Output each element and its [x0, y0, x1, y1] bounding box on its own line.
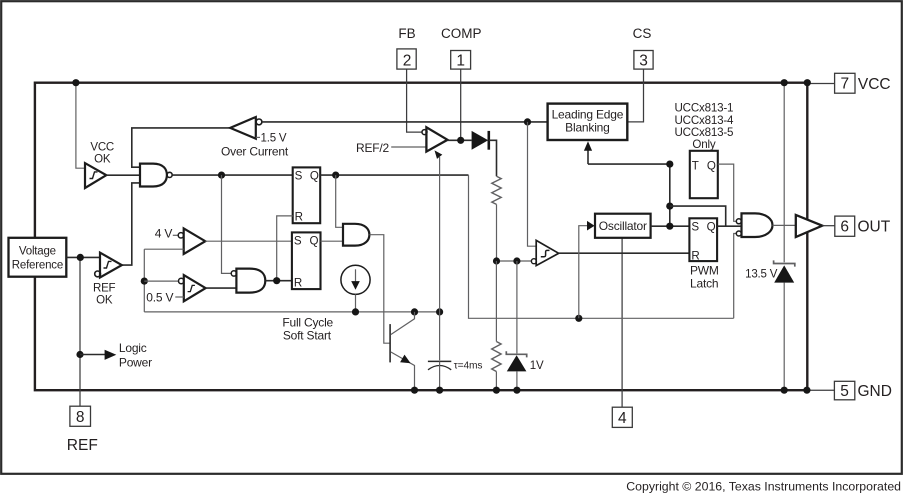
junction sense / 0.5V comparator — [141, 278, 148, 285]
junction fault line to soft-start AND gate branch — [218, 172, 225, 179]
wire over-current inverting input from LEB output — [262, 121, 548, 123]
svg-text:S: S — [295, 170, 303, 183]
buffer VCC OK — [85, 163, 106, 188]
junction VCC rail / VCC OK — [72, 79, 79, 86]
svg-text:T: T — [692, 160, 699, 173]
svg-text:CS: CS — [633, 26, 652, 41]
svg-text:UCCx813-4: UCCx813-4 — [675, 114, 735, 127]
svg-text:8: 8 — [76, 409, 85, 426]
wire sense vertical to soft-start bus — [143, 249, 145, 312]
wire node down through R2 to GND — [495, 261, 497, 342]
wire LEB output down to PWM comparator non-inverting input — [528, 122, 537, 246]
zener diode 1V clamp — [506, 351, 526, 357]
comparator over current (points left) — [230, 117, 256, 139]
wire 0.5V label dash — [175, 296, 184, 298]
svg-text:OUT: OUT — [858, 218, 891, 235]
junction REF node — [77, 254, 84, 261]
wire VCC rail to VCC OK buffer input — [76, 83, 85, 169]
svg-text:6: 6 — [840, 219, 849, 236]
pin 2 box — [397, 49, 416, 69]
sr latch 2 box — [292, 232, 321, 289]
junction U3 output / latch1 R — [273, 277, 280, 284]
pin 5 box — [834, 381, 854, 400]
wire NAND output to SR latch 1 S input (main fault line) — [172, 174, 293, 176]
wire Q line up to output AND bottom inverted input — [734, 234, 737, 319]
junction zener / GND rail — [781, 387, 788, 394]
wire R1 to PWM comparator input node — [496, 204, 498, 261]
svg-text:2: 2 — [403, 52, 412, 69]
svg-text:UCCx813-5: UCCx813-5 — [675, 126, 734, 139]
wire over-current output to NAND top input — [132, 128, 230, 167]
svg-text:Full Cycle: Full Cycle — [282, 315, 333, 329]
svg-text:OK: OK — [94, 154, 111, 166]
junction LEB output / PWM comparator branch — [524, 118, 531, 125]
Q1 collector wire — [391, 312, 415, 335]
op-amp error amplifier — [426, 127, 447, 151]
junction soft-start cap / bus — [436, 308, 443, 315]
wire oscillator down to pin 4 (crosses GND rail) — [621, 238, 623, 407]
comparator 0.5V input bubble — [179, 278, 184, 283]
over current input bubble — [256, 119, 262, 125]
wire GND rail to pin 5 — [807, 389, 834, 391]
svg-text:FB: FB — [398, 26, 415, 41]
svg-text:Latch: Latch — [690, 276, 718, 290]
pin 4 box — [612, 407, 632, 427]
and gate U4 (soft start) — [343, 224, 369, 246]
junction top rail corner to pin 7 — [804, 79, 811, 86]
svg-text:Voltage: Voltage — [19, 246, 56, 258]
wire REF net down to pin 8 (crosses GND rail) — [79, 355, 81, 407]
wire oscillator output to PWM latch S input — [651, 225, 690, 227]
svg-text:Only: Only — [692, 138, 715, 151]
and gate U3 (inverted top input) — [236, 269, 265, 293]
buffer REF OK — [100, 253, 122, 278]
wire soft-start clamp into error amp (arrow up-left) — [439, 157, 441, 360]
wire 1V zener branch — [516, 261, 518, 353]
wire latch1 R input from below — [277, 216, 293, 281]
junction cap / GND — [436, 387, 443, 394]
resistor R1 (upper divider) — [492, 176, 501, 204]
junction current source / bus — [352, 308, 359, 315]
wire branch down to AND U3 inverted input — [222, 175, 231, 273]
U3 top input bubble — [231, 271, 236, 276]
svg-text:1.5 V: 1.5 V — [261, 132, 287, 144]
wire T FF Q output to output AND top inverted input — [718, 164, 736, 221]
svg-text:Q: Q — [707, 160, 716, 173]
junction latch1 Q branch — [332, 172, 339, 179]
junction clock / AND branch — [666, 203, 673, 210]
svg-text:Q: Q — [310, 235, 319, 248]
svg-text:τ=4ms: τ=4ms — [454, 361, 483, 372]
junction COMP node — [457, 137, 464, 144]
transistor Q1 (soft start discharge, PNP) — [389, 324, 391, 362]
pwm latch box — [689, 218, 717, 261]
wire clock branch to output AND middle input — [670, 206, 726, 226]
svg-text:13.5 V: 13.5 V — [745, 269, 778, 281]
wire error amp output to diode — [448, 139, 472, 141]
junction divider node — [493, 257, 500, 264]
svg-text:VCC: VCC — [90, 142, 114, 154]
hysteresis mark 0.5V comparator — [188, 285, 195, 291]
comparator PWM — [536, 240, 559, 265]
junction bottom rail corner to pin 5 — [803, 387, 810, 394]
svg-text:COMP: COMP — [441, 26, 482, 41]
hysteresis mark REF OK — [104, 261, 112, 268]
wire FB pin 2 down to error amp inverting input — [407, 69, 422, 132]
wire COMP pin 1 down to error amp output node — [460, 69, 462, 140]
leading edge blanking box — [548, 104, 628, 140]
wire oscillator feed with arrow — [579, 226, 588, 319]
svg-text:S: S — [691, 221, 699, 234]
wire REF net vertical (to logic power and pin 8) — [79, 257, 81, 354]
wire PWM comparator output to PWM latch R input — [559, 252, 690, 254]
wire PWM latch Q to output AND middle input — [717, 225, 741, 227]
junction logic power tap — [76, 351, 83, 358]
pin 7 box — [835, 73, 855, 93]
U5 top input bubble — [736, 219, 741, 224]
wire CS pin 3 down to leading edge blanking input — [627, 69, 643, 122]
wire sense to 0.5V comparator bubble — [144, 280, 178, 282]
svg-text:Reference: Reference — [12, 260, 63, 272]
voltage reference box — [9, 238, 67, 277]
svg-text:Q: Q — [310, 170, 319, 183]
wire soft-start bus — [144, 311, 439, 313]
junction transistor collector / bus — [411, 308, 418, 315]
svg-text:OK: OK — [96, 295, 113, 307]
nand gate U1 (3-input, VCC OK / REF OK / over current) — [140, 164, 167, 187]
pin 6 box — [835, 216, 855, 236]
wire voltage reference output to REF OK input — [66, 256, 100, 258]
wire REF OK output to NAND bottom input — [122, 183, 140, 265]
svg-text:R: R — [295, 211, 303, 224]
wire latch1 Q down to AND U4 top input — [336, 175, 343, 227]
svg-text:PWM: PWM — [690, 263, 719, 277]
svg-text:0.5 V: 0.5 V — [146, 291, 173, 305]
buffer output driver — [796, 215, 823, 237]
clock node vertical — [669, 164, 671, 226]
and gate U5 (output, 3-input) — [742, 213, 773, 237]
wire U4 output down to discharge transistor base — [369, 235, 389, 344]
oscillator box — [595, 214, 651, 238]
svg-text:Logic: Logic — [119, 341, 147, 355]
comparator 4V input bubble — [178, 233, 183, 238]
wire 0.5V comparator output to AND U3 lower input — [206, 287, 237, 289]
diode D1 (error amp output) — [472, 131, 489, 150]
PWM comparator inverting bubble — [531, 259, 536, 264]
pin 1 box — [451, 51, 471, 70]
junction 1V zener / GND — [513, 387, 520, 394]
svg-text:Over Current: Over Current — [221, 144, 289, 158]
junction VCC / zener branch — [781, 79, 788, 86]
wire latch2 Q output to AND U4 lower input — [321, 240, 344, 242]
sr latch 1 box — [293, 167, 321, 223]
capacitor soft start (tau=4ms) — [428, 360, 451, 362]
comparator 4V — [184, 228, 206, 254]
svg-text:REF: REF — [67, 437, 98, 454]
svg-text:4: 4 — [618, 410, 627, 427]
hysteresis mark PWM comparator — [541, 250, 550, 256]
comparator 0.5V — [184, 275, 206, 301]
toggle flip-flop box (T FF) — [690, 151, 718, 198]
junction 1V clamp node — [513, 257, 520, 264]
nand U1 output bubble — [167, 172, 172, 177]
svg-text:R: R — [691, 249, 699, 262]
svg-text:VCC: VCC — [858, 76, 891, 93]
wire R2 to GND rail — [495, 372, 497, 391]
label -1.5 V — [256, 136, 260, 138]
wire clock line to LEB trigger (arrow up) — [588, 163, 670, 165]
wire U3 output to latch2 R input — [265, 280, 292, 282]
svg-text:1: 1 — [456, 52, 465, 69]
REF OK inverting marker bubble — [95, 271, 101, 277]
pin 8 box — [70, 406, 91, 426]
svg-text:Oscillator: Oscillator — [599, 219, 647, 233]
wire VCC OK output to NAND middle input — [106, 174, 140, 176]
U5 bottom input bubble — [736, 231, 741, 236]
wire VCC rail to pin 7 — [807, 83, 834, 85]
hysteresis mark VCC OK — [90, 172, 98, 179]
current source soft start — [341, 265, 370, 294]
wire soft-start cap sense to 4V comparator lower input — [144, 248, 183, 250]
svg-text:3: 3 — [639, 52, 648, 69]
wire current source to soft-start bus — [355, 294, 357, 312]
zener diode 13.5V VCC clamp — [774, 260, 795, 266]
wire latch1 Q line down and across (to output AND inverted input) — [469, 175, 734, 318]
junction Q1 emitter / GND rail — [411, 387, 418, 394]
junction R2 / GND — [493, 387, 500, 394]
svg-text:Q: Q — [707, 221, 716, 234]
svg-text:Power: Power — [119, 356, 152, 370]
svg-text:REF/2: REF/2 — [356, 141, 390, 155]
wire 4V comparator output to latch2 S input — [205, 240, 292, 242]
svg-text:REF: REF — [93, 283, 116, 295]
svg-text:Leading Edge: Leading Edge — [552, 108, 624, 122]
svg-text:GND: GND — [858, 383, 892, 400]
wire U5 output to output buffer — [773, 224, 796, 226]
junction clock / T input — [666, 161, 673, 168]
wire REF/2 to error amp non-inverting input — [391, 146, 426, 148]
wire buffer to pin 6 — [822, 225, 835, 227]
pin 3 box — [634, 51, 653, 70]
wire divider node to PWM comparator inverting input — [497, 260, 532, 262]
svg-text:Copyright © 2016, Texas Instru: Copyright © 2016, Texas Instruments Inco… — [626, 480, 901, 494]
svg-text:R: R — [294, 276, 302, 289]
svg-text:S: S — [294, 235, 302, 248]
svg-text:1V: 1V — [530, 360, 544, 372]
wire latch1 Q output to the right — [320, 174, 468, 176]
svg-text:4 V: 4 V — [155, 227, 173, 241]
IC boundary box (VCC top rail, GND bottom rail, left and right edges) — [35, 83, 807, 391]
svg-text:7: 7 — [840, 76, 849, 93]
junction clock / S input — [666, 223, 673, 230]
wire 4V label dash — [173, 234, 178, 236]
svg-text:5: 5 — [840, 383, 849, 400]
svg-text:Blanking: Blanking — [565, 121, 609, 135]
wire 13.5V zener branch from VCC rail to GND rail — [783, 83, 785, 263]
arrow logic power — [80, 354, 105, 356]
error amp inverting input bubble — [422, 130, 427, 135]
svg-text:UCCx813-1: UCCx813-1 — [675, 102, 734, 115]
wire diode cathode to divider — [489, 140, 497, 176]
junction Q line / oscillator sync — [575, 315, 582, 322]
resistor R2 (lower divider) — [492, 342, 501, 372]
Q1 emitter wire with arrow — [391, 352, 415, 390]
svg-text:Soft Start: Soft Start — [283, 329, 332, 343]
